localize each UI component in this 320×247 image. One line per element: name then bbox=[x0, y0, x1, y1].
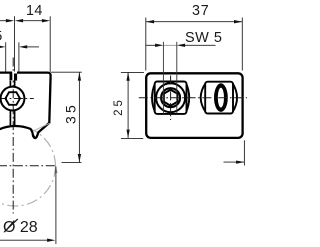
svg-text:35: 35 bbox=[62, 102, 78, 124]
svg-text:25: 25 bbox=[113, 97, 125, 116]
svg-text:14: 14 bbox=[26, 3, 43, 19]
svg-text:5: 5 bbox=[0, 27, 3, 43]
svg-text:37: 37 bbox=[192, 3, 210, 19]
svg-text:SW 5: SW 5 bbox=[185, 30, 222, 46]
